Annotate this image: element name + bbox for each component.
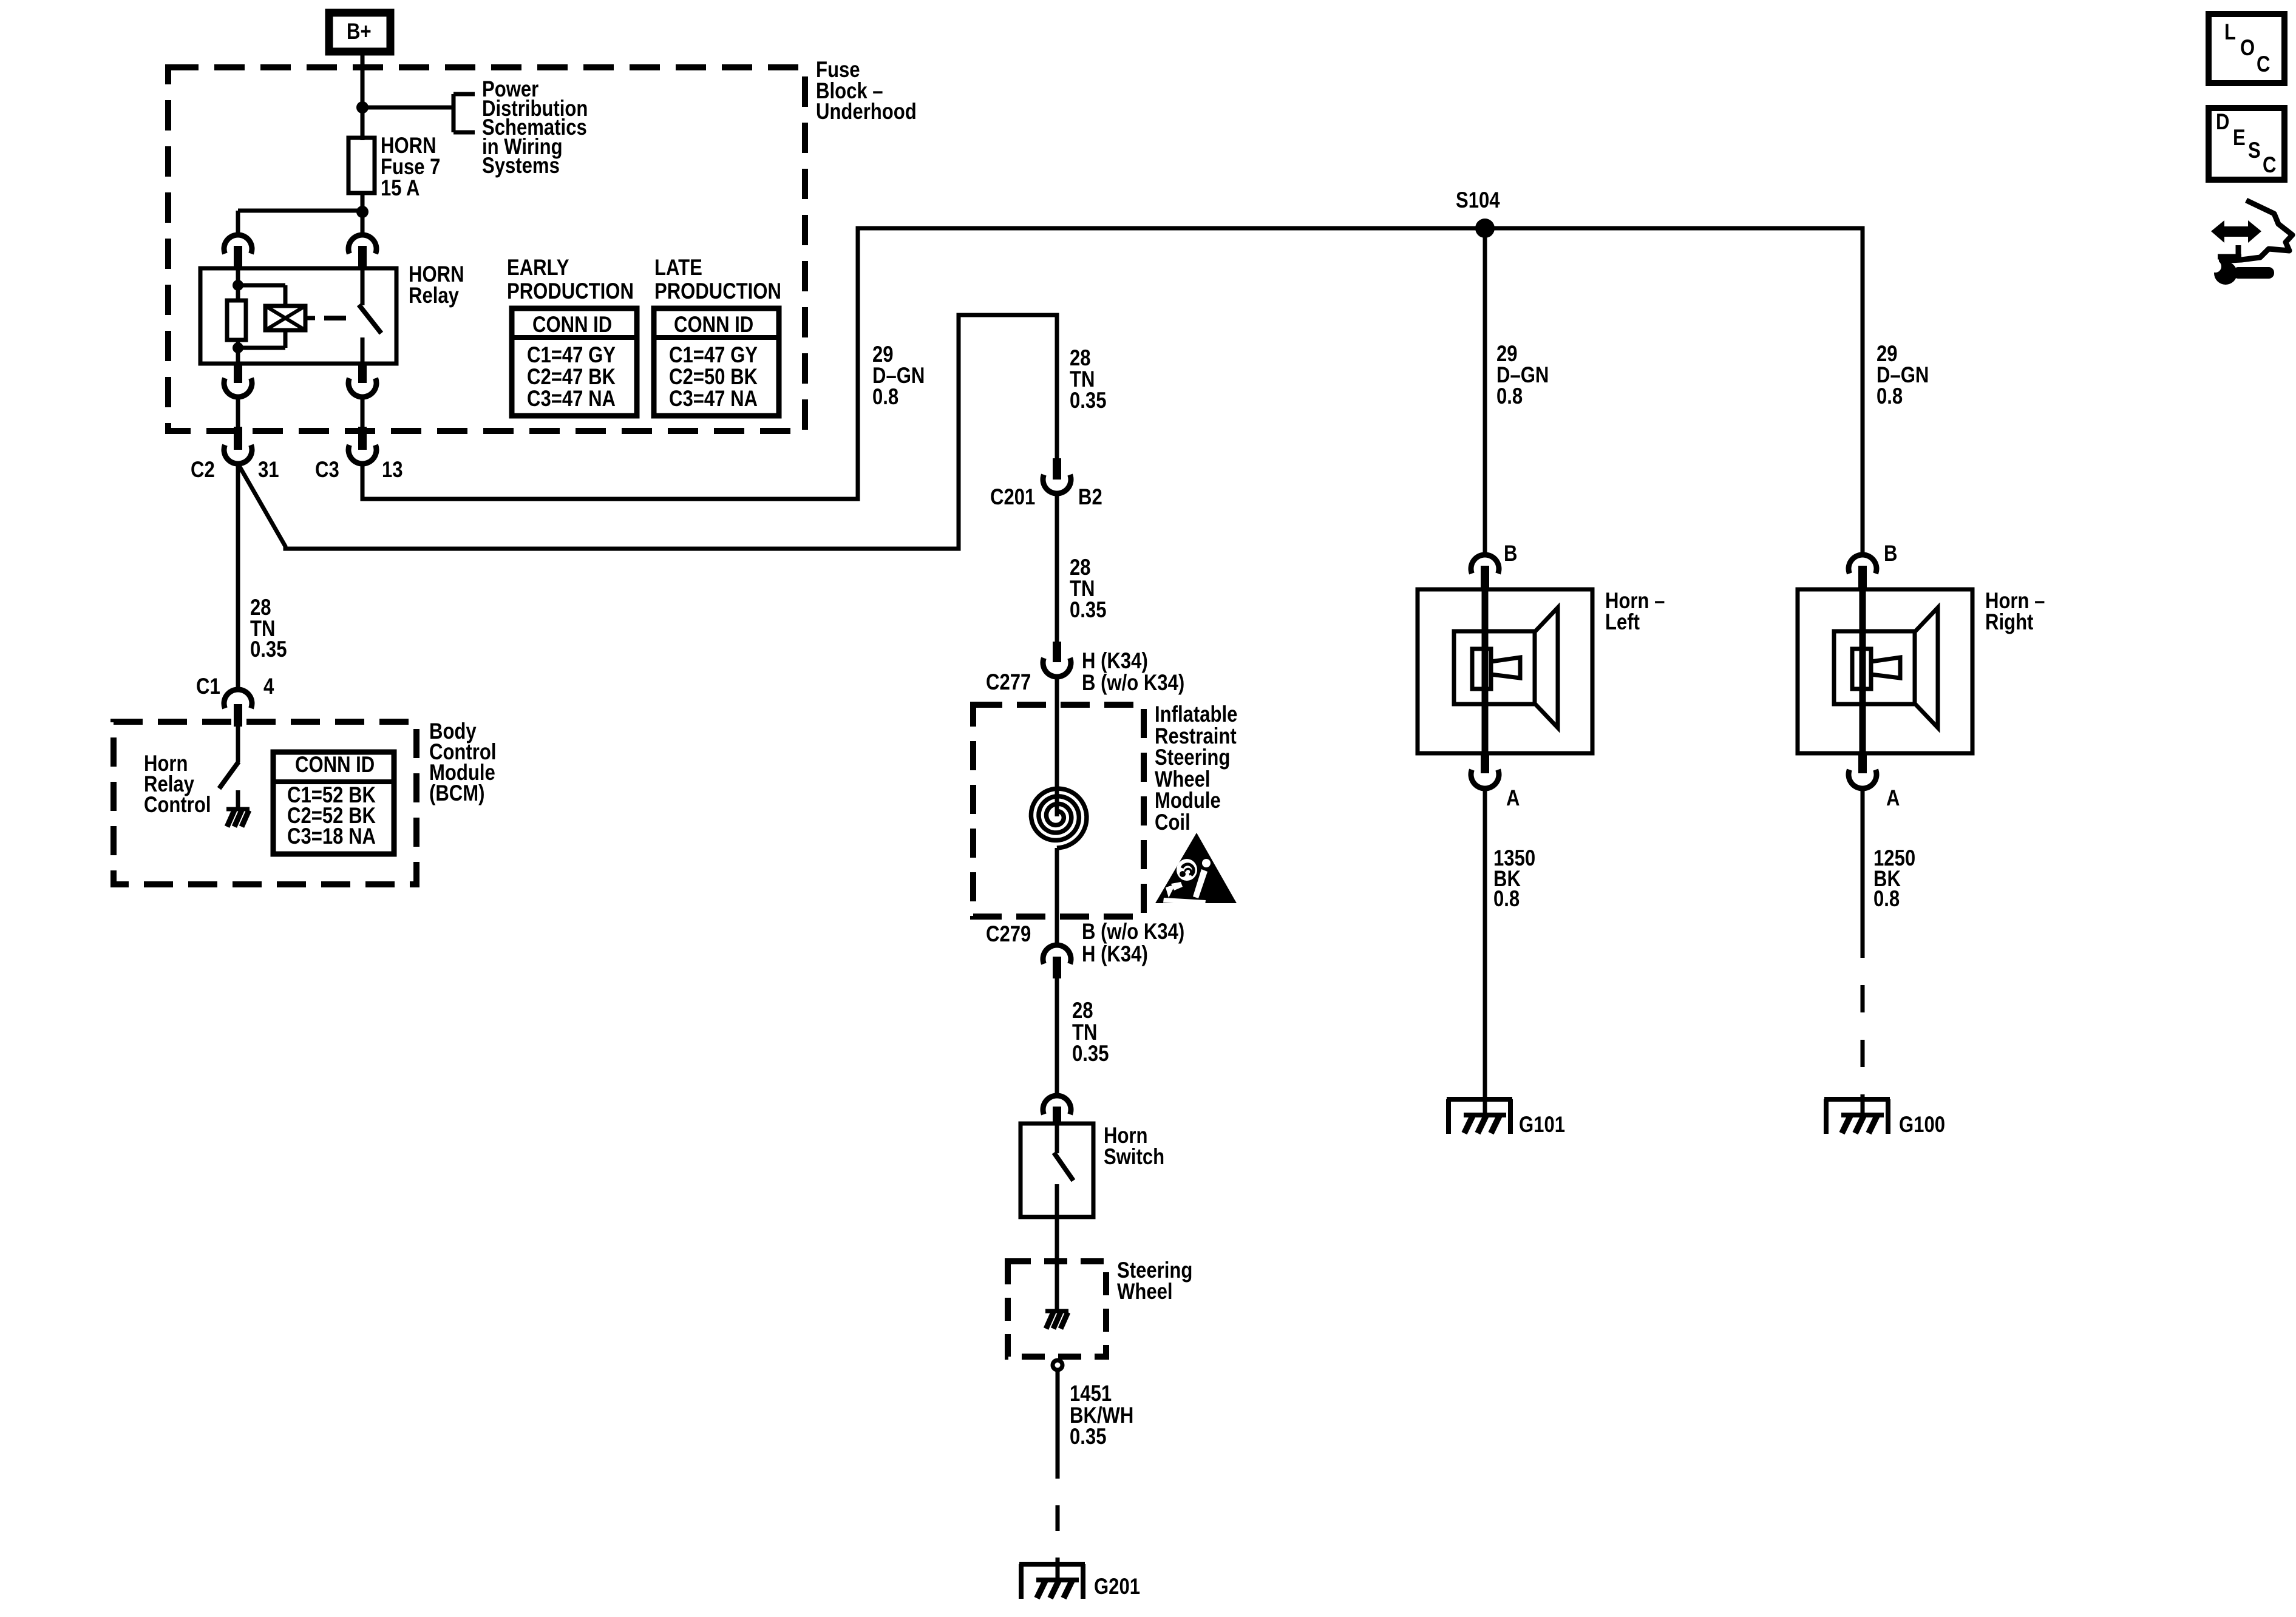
horn right beak xyxy=(1871,657,1900,678)
right horn connector A (female) xyxy=(1849,770,1877,788)
LOC icon letter O xyxy=(2240,38,2255,59)
connector C1 (female dome) xyxy=(224,690,252,708)
wire C3 pin 13 to S104 bus xyxy=(362,228,1863,556)
wire C2 to C1 of BCM xyxy=(236,464,240,691)
label C277 xyxy=(986,672,1031,693)
label pin H K34 xyxy=(1082,651,1148,672)
battery positive terminal B+ box xyxy=(329,13,390,52)
body control module dashed box xyxy=(114,722,416,884)
label pin B left horn xyxy=(1504,543,1517,564)
label early production xyxy=(507,256,634,303)
label wire 1350 BK 0.8 xyxy=(1493,848,1535,909)
relay pin top left male bar xyxy=(234,246,242,268)
wire S104 down to left horn xyxy=(1483,228,1487,556)
horn left bell flare xyxy=(1535,608,1558,728)
right horn connector B male bar xyxy=(1858,566,1867,589)
label inflatable restraint steering wheel module coil xyxy=(1155,703,1237,833)
connector C277 male bar xyxy=(1053,642,1061,662)
left horn connector B (female dome) xyxy=(1471,555,1499,574)
steering wheel internal ground xyxy=(1045,1261,1068,1329)
DESC icon letter E xyxy=(2233,127,2246,149)
label horn relay xyxy=(409,263,464,306)
horn left inner driver box xyxy=(1454,631,1535,704)
BCM horn relay control switch blade xyxy=(219,762,239,788)
label pin H K34 lower xyxy=(1082,944,1148,965)
horn right internal wire xyxy=(1860,589,1866,753)
label pin 13 xyxy=(382,459,403,481)
horn right small rect xyxy=(1852,649,1871,689)
horn switch connector (female dome) xyxy=(1043,1096,1071,1114)
label wire 28 TN 0.35 below C201 xyxy=(1070,557,1106,620)
inflatable restraint steering wheel module coil dashed box xyxy=(973,705,1144,917)
power distribution callout bracket xyxy=(453,94,475,132)
relay coil right stub xyxy=(305,316,315,320)
label pin 31 xyxy=(258,459,279,481)
junction dot above fuse xyxy=(356,101,369,114)
relay internal wire left lower xyxy=(236,340,240,364)
relay coil element (box with X) xyxy=(265,306,305,330)
late production CONN ID table frame xyxy=(654,308,779,416)
label conn id BCM xyxy=(295,754,375,776)
label conn id early xyxy=(532,314,612,336)
wire horn right dashed segment xyxy=(1861,931,1865,1099)
wire coil to C279 xyxy=(1055,848,1059,946)
LOC icon box xyxy=(2209,14,2284,83)
relay coil branch wires xyxy=(238,285,285,348)
ring terminal circle at steering wheel boundary xyxy=(1053,1360,1062,1370)
label wire 29 D-GN 0.8 first xyxy=(872,344,925,407)
relay pin top right male bar xyxy=(358,246,367,268)
DESC icon letter D xyxy=(2216,112,2229,133)
relay pin connector top left (female) xyxy=(224,235,252,254)
label wire 28 TN 0.35 left xyxy=(250,597,287,660)
label fuse block underhood xyxy=(816,59,917,123)
label steering wheel xyxy=(1117,1259,1192,1302)
label C1 xyxy=(196,676,220,697)
airbag warning triangle xyxy=(1155,833,1237,905)
label body control module BCM xyxy=(429,721,496,804)
label pin B wo K34 lower xyxy=(1082,921,1184,943)
relay switch wire upper xyxy=(361,268,365,305)
label pin A left horn xyxy=(1506,788,1520,809)
wire horn left to ground xyxy=(1483,788,1487,1099)
horn right box xyxy=(1798,589,1972,753)
splice S104 dot xyxy=(1475,219,1495,238)
junction dot relay coil bottom xyxy=(233,342,243,353)
horn right bell flare xyxy=(1915,608,1938,728)
left horn connector A male bar xyxy=(1481,753,1489,773)
connector C279 male bar xyxy=(1053,957,1061,978)
LOC icon letter C xyxy=(2257,54,2270,75)
label wire 28 TN 0.35 upper middle xyxy=(1070,347,1106,411)
wire B+ to fuse xyxy=(361,52,365,140)
label wire 28 TN 0.35 lower xyxy=(1072,1000,1109,1065)
label pin B2 xyxy=(1078,487,1102,508)
horn switch connector male bar xyxy=(1053,1107,1061,1124)
hand navigation icon outline xyxy=(2218,200,2292,261)
label wire 1250 BK 0.8 xyxy=(1873,848,1915,909)
label horn right xyxy=(1985,591,2045,632)
early production CONN ID table frame xyxy=(512,308,637,416)
BCM horn relay control wire xyxy=(236,727,240,762)
label wire 1451 BK/WH 0.35 xyxy=(1070,1383,1133,1448)
label conn id late xyxy=(674,314,753,336)
left horn connector B male bar xyxy=(1481,566,1489,589)
horn right inner driver box xyxy=(1834,631,1915,704)
label C201 xyxy=(990,487,1035,508)
label late conn table rows xyxy=(669,344,758,410)
relay pin connector bottom right (female) xyxy=(348,378,376,397)
connector C3 (female) xyxy=(348,445,376,464)
label B+ xyxy=(347,21,372,42)
DESC icon box xyxy=(2209,108,2284,180)
right horn drop wire xyxy=(1861,228,1865,556)
label C279 xyxy=(986,924,1031,945)
hand navigation icon double arrow xyxy=(2211,220,2261,243)
label horn switch xyxy=(1104,1125,1164,1167)
horn switch blade xyxy=(1054,1153,1073,1181)
label G201 xyxy=(1094,1576,1140,1598)
wire fuse to junction xyxy=(361,193,365,214)
relay switch blade xyxy=(359,305,381,333)
label power distribution schematics xyxy=(482,80,588,175)
wire relay left pin to C2 xyxy=(236,397,240,429)
label G101 xyxy=(1519,1114,1565,1136)
label pin B right horn xyxy=(1884,543,1897,564)
connector C279 (female dome) xyxy=(1043,945,1071,964)
relay switch wire lower xyxy=(361,337,365,364)
wire C277 into coil module xyxy=(1055,677,1059,816)
DESC icon letter S xyxy=(2248,140,2261,161)
label S104 xyxy=(1456,190,1500,211)
horn left beak xyxy=(1491,657,1520,678)
horn left small rect xyxy=(1472,649,1491,689)
connector C2 (female) xyxy=(224,445,252,464)
horn switch box xyxy=(1021,1124,1093,1217)
resistor inside relay xyxy=(227,300,246,340)
label pin A right horn xyxy=(1886,788,1900,809)
label C2 xyxy=(191,459,215,481)
connector C3 male bar xyxy=(358,427,367,450)
label pin 4 xyxy=(263,676,274,697)
ground G201 xyxy=(1019,1564,1085,1599)
fuse F7 HORN 15A xyxy=(348,138,375,193)
label C3 xyxy=(315,459,339,481)
label late production xyxy=(654,256,781,303)
ground G101 xyxy=(1447,1099,1512,1134)
wire to relay switch pin xyxy=(361,212,365,236)
wire 1451 BK/WH dashed segment xyxy=(1056,1453,1060,1564)
wire branch to power distribution callout xyxy=(362,106,453,110)
right horn connector B (female dome) xyxy=(1849,555,1877,574)
wire 1451 BK/WH solid segment xyxy=(1056,1370,1060,1453)
horn left internal wire xyxy=(1482,589,1489,753)
wire C279 to horn switch xyxy=(1055,978,1059,1097)
DESC icon letter C xyxy=(2263,155,2276,176)
hand navigation icon wrench xyxy=(2209,260,2274,285)
right horn connector A male bar xyxy=(1858,753,1867,773)
label horn fuse 7 15A xyxy=(381,135,440,198)
relay pin connector bottom left (female) xyxy=(224,378,252,397)
left horn connector A (female) xyxy=(1471,770,1499,788)
label pin B wo K34 xyxy=(1082,673,1184,694)
label horn left xyxy=(1605,591,1665,632)
clockspring coil spiral xyxy=(1031,788,1087,848)
label BCM conn table rows xyxy=(287,785,376,847)
relay pin connector top right (female) xyxy=(348,235,376,254)
dashed mechanical link xyxy=(324,316,346,320)
fuse block underhood dashed boundary box xyxy=(168,67,805,431)
connector C277 (female) xyxy=(1043,658,1071,677)
label wire 29 D-GN 0.8 left horn xyxy=(1496,343,1549,407)
junction dot below fuse xyxy=(356,206,369,218)
horn switch wire lower xyxy=(1055,1184,1059,1263)
connector C201 male bar xyxy=(1053,458,1061,480)
LOC icon letter L xyxy=(2224,22,2236,43)
BCM CONN ID table frame xyxy=(273,752,394,854)
horn switch wire upper xyxy=(1055,1124,1059,1153)
horn left box xyxy=(1418,589,1592,753)
label early conn table rows xyxy=(527,344,616,410)
relay pin bottom left male bar xyxy=(234,364,242,383)
connector C2 male bar xyxy=(234,427,242,450)
junction dot relay coil top xyxy=(233,280,243,291)
label wire 29 D-GN 0.8 right horn xyxy=(1877,343,1929,407)
label horn relay control xyxy=(144,753,211,815)
relay pin bottom right male bar xyxy=(358,364,367,383)
wire branch left to relay coil pin xyxy=(238,211,365,236)
BCM internal ground xyxy=(226,790,250,827)
label G100 xyxy=(1899,1114,1945,1136)
wire C201 to C277 xyxy=(1055,493,1059,643)
steering wheel dashed box xyxy=(1008,1261,1106,1357)
connector C1 male bar xyxy=(234,704,242,727)
horn relay box xyxy=(200,268,396,364)
relay internal wire left xyxy=(236,268,240,302)
wire relay right pin to C3 xyxy=(361,397,365,429)
ground G100 xyxy=(1824,1099,1890,1134)
wire horn right solid segment xyxy=(1861,788,1865,931)
wire C2 pin 31 to C201 branch xyxy=(238,315,1057,549)
connector C201 (female) xyxy=(1043,475,1071,493)
